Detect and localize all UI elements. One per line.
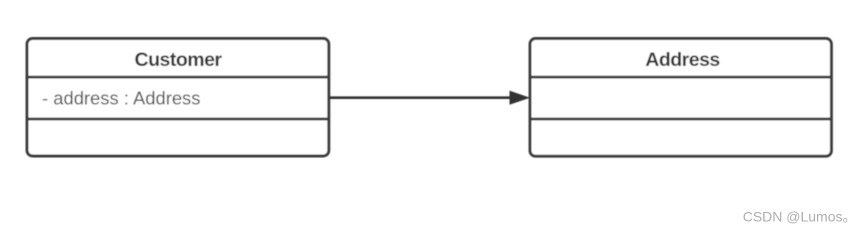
class box Customer [27, 39, 329, 157]
class box Address [530, 39, 831, 157]
svg-text:CSDN @Lumos。: CSDN @Lumos。 [743, 209, 855, 225]
svg-text:- address : Address: - address : Address [42, 88, 200, 109]
svg-text:Address: Address [645, 49, 720, 71]
arrowhead [510, 91, 531, 105]
wire association Customer to Address [330, 96, 511, 99]
svg-text:Customer: Customer [134, 49, 222, 71]
